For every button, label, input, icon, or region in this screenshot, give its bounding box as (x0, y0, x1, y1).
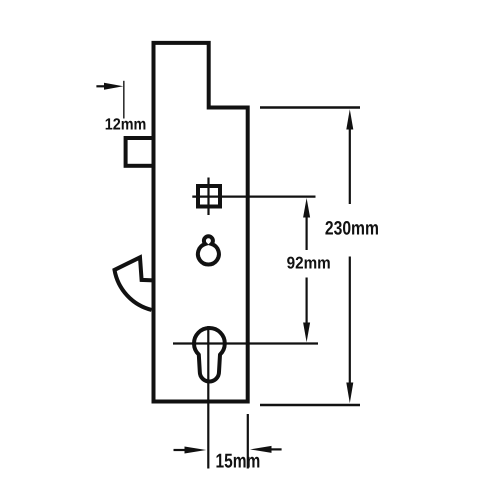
15mm right arrow tail (270, 448, 282, 450)
svg-text:12mm: 12mm (105, 116, 147, 134)
12mm extension line (latch face) (123, 81, 125, 119)
15mm right arrowhead (250, 446, 272, 453)
follower keyhole (circle with top bump) (198, 236, 219, 264)
lock case body outline (154, 43, 248, 402)
svg-text:92mm: 92mm (287, 253, 331, 272)
spindle cross vertical line (207, 178, 209, 216)
euro cylinder hole (194, 328, 225, 382)
92mm lower arrowhead (303, 323, 310, 343)
92mm dimension line upper segment (306, 216, 308, 250)
12mm arrowhead (104, 83, 123, 90)
svg-text:230mm: 230mm (325, 219, 379, 240)
230mm upper arrowhead (346, 109, 353, 129)
15mm right extension line (247, 414, 249, 469)
92mm upper arrowhead (303, 198, 310, 218)
bottom datum extension line (260, 404, 360, 406)
top datum extension line (260, 106, 360, 108)
spindle square hole (198, 186, 220, 207)
230mm lower arrowhead (346, 383, 353, 404)
15mm left arrow tail (174, 449, 187, 451)
svg-text:15mm: 15mm (216, 450, 261, 472)
92mm dimension line lower segment (306, 278, 308, 324)
230mm dimension line upper segment (349, 128, 351, 204)
15mm left arrowhead (185, 447, 207, 454)
euro cylinder horizontal centerline (173, 342, 318, 344)
euro cylinder vertical centerline (extends down as 15mm datum) (207, 326, 209, 469)
hook bolt (115, 257, 154, 310)
spindle cross horizontal line (extends to 92mm top datum) (192, 196, 315, 198)
12mm pointer line (96, 85, 106, 87)
230mm dimension line lower segment (349, 257, 351, 384)
latch bolt (126, 138, 154, 166)
